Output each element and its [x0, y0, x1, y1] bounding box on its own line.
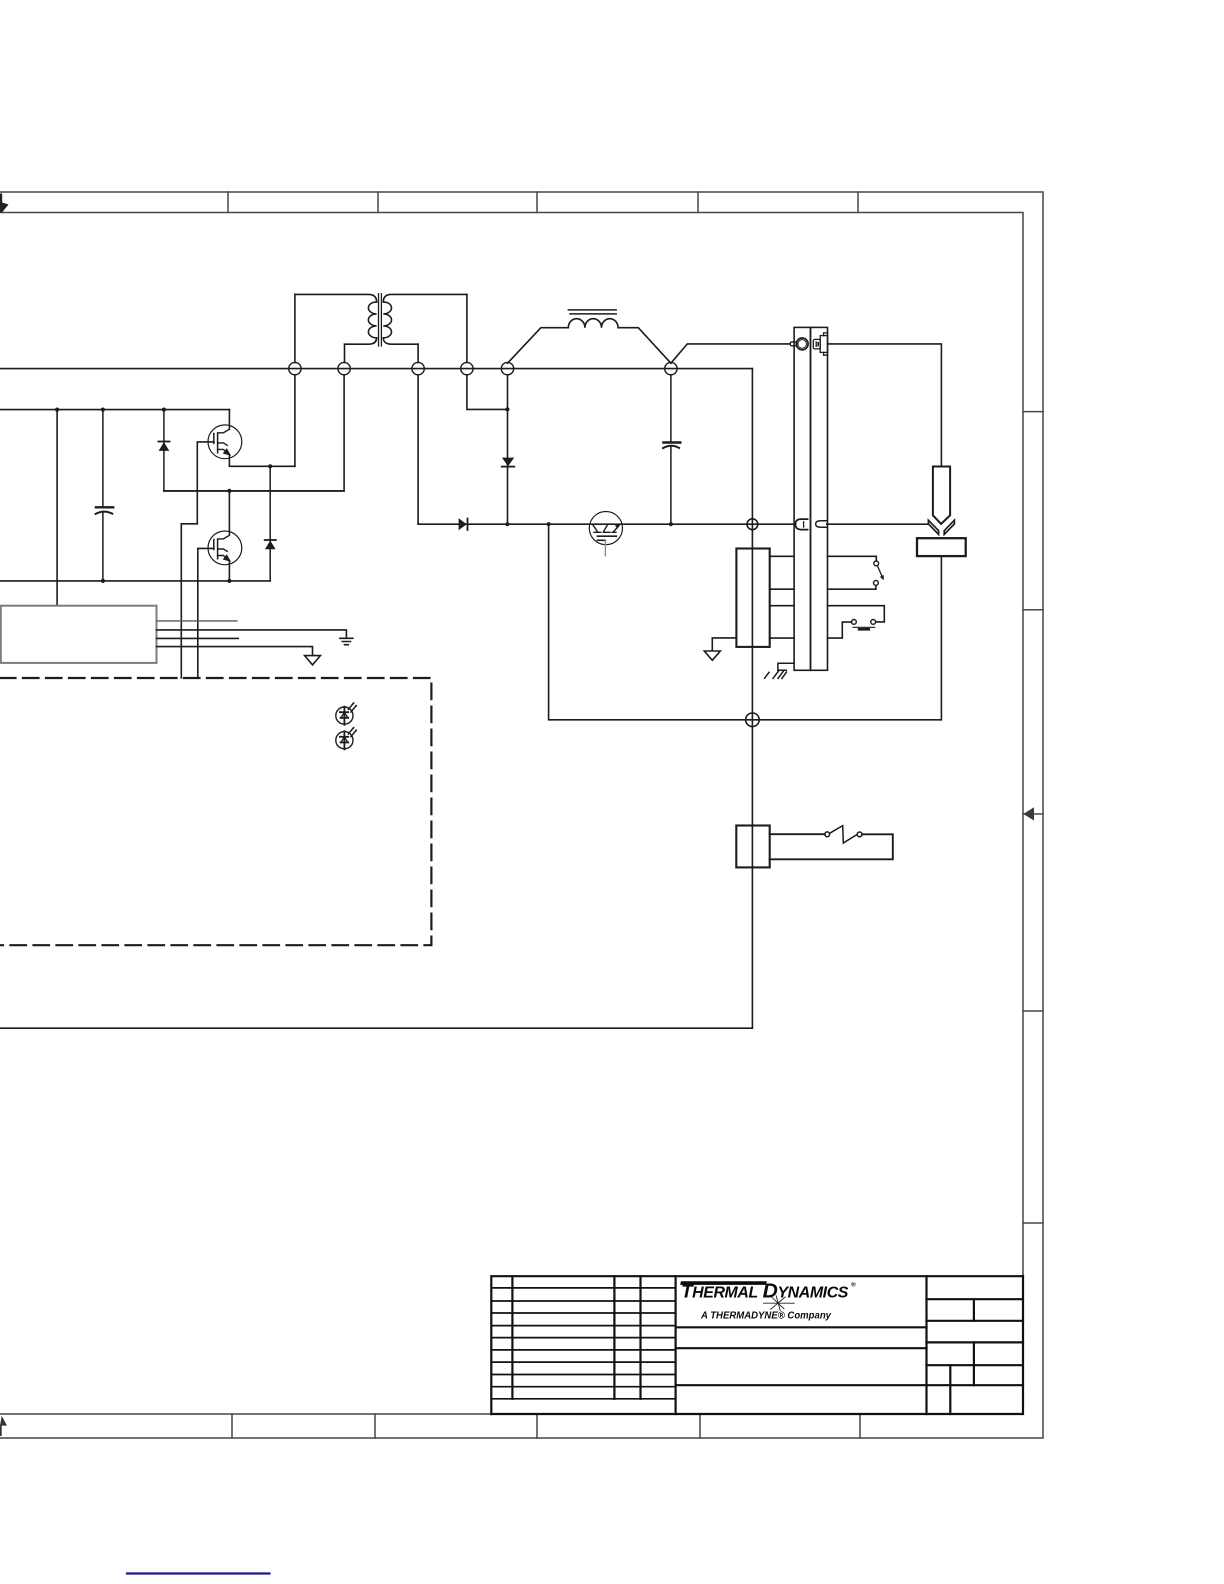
wire: upper input rail [0, 409, 229, 411]
capacitor C2 [663, 375, 680, 524]
switch S1 (torch trigger) [874, 561, 884, 585]
node: output connector circle [747, 519, 758, 530]
transformer T1 [295, 294, 467, 363]
diode D1 [158, 410, 169, 491]
ground (earth) [340, 638, 353, 644]
wire: bus to half-bridge output node [294, 375, 296, 467]
diode D3 [502, 458, 515, 467]
dashed enclosure (front panel) [0, 678, 431, 945]
chassis ground at torch [765, 663, 795, 678]
wire: K1 pin3 run [770, 606, 885, 622]
diode D4 [459, 518, 468, 530]
LED2 [336, 727, 357, 750]
wire: pilot return drop [549, 524, 753, 720]
connector pin P1 [790, 342, 797, 346]
wire: work lead vertical [751, 369, 753, 1029]
connector socket (cathode, C-shape) [795, 519, 807, 530]
wire: K1 pin2 run [770, 586, 876, 590]
wire: K1 to signal ground [712, 638, 736, 651]
connector pin (cathode, bullet) [816, 521, 827, 527]
wire: work lead bottom run [0, 1027, 752, 1029]
wire: PCB1 output C [157, 637, 239, 639]
switch TS1 (tip contact) [852, 620, 876, 630]
wire: Q2 emitter [228, 561, 230, 581]
wire: PCB1 output B to earth [157, 630, 347, 638]
wire: bus circle 4 link to snubber diode [467, 375, 508, 410]
wire: mid rail [164, 490, 344, 492]
workpiece [917, 538, 966, 556]
wire: PS1 loop with flow switch FS1 [770, 834, 893, 859]
wire: PCB1 output D to signal ground [157, 647, 313, 656]
torch connector housings J1 [794, 327, 810, 670]
LED1 [336, 702, 357, 725]
transistor Q3 (output IGBT) [589, 511, 622, 544]
wire: electrode lead [828, 344, 942, 466]
ground (signal, open arrow) [305, 656, 321, 665]
wire: Q2 gate [198, 548, 214, 678]
wire: K1 pin4 run [770, 622, 852, 638]
connector ring (torch electrode terminal) [796, 338, 808, 350]
wire: Q1 gate [181, 442, 214, 678]
node: work connector circle [746, 713, 760, 727]
node circles on bus [289, 362, 677, 374]
wire: Q1 collector [228, 410, 230, 429]
inductor L1 [508, 310, 671, 363]
transistor Q2 (lower IGBT) [208, 531, 242, 565]
hyperlink underline [127, 1572, 270, 1574]
wire: bus to mid-rail [164, 375, 344, 491]
switch FS1 (flow/pressure contact) [825, 826, 862, 843]
wire: pilot lead to torch [671, 344, 790, 363]
wire: control board sense drop [56, 410, 58, 606]
wire: workpiece to work connector [752, 556, 941, 720]
pressure switch block PS1 [736, 826, 769, 868]
connector receptacle [813, 333, 827, 355]
torch tip chevron [928, 520, 954, 534]
wire: snubber diode branch vertical [507, 375, 509, 524]
Thermal Dynamics logo [680, 1280, 856, 1322]
control board PCB1 [1, 606, 157, 663]
wire: K1 pin1 run [770, 556, 877, 561]
svg-text:A THERMADYNE® Company: A THERMADYNE® Company [700, 1311, 832, 1322]
wire: Q1 emitter / phase node [229, 455, 295, 466]
transistor Q1 (upper IGBT) [208, 425, 242, 459]
svg-text:®: ® [851, 1281, 856, 1289]
diode D2 [265, 466, 276, 581]
junction dots [55, 407, 673, 583]
wire: PCB1 output A [157, 620, 237, 622]
wire: main DC bus [0, 368, 752, 370]
wire: bus to output rail corner [417, 375, 419, 524]
wire: lower input rail [0, 580, 270, 582]
torch electrode [933, 467, 950, 524]
ground (signal, open arrow) [704, 651, 720, 660]
wire: Q2 collector [228, 491, 230, 535]
pilot relay block K1 [736, 549, 769, 647]
capacitor C1 [96, 410, 114, 581]
wire: Q3 gate stub [604, 540, 606, 555]
wire: output cathode rail [418, 523, 928, 525]
